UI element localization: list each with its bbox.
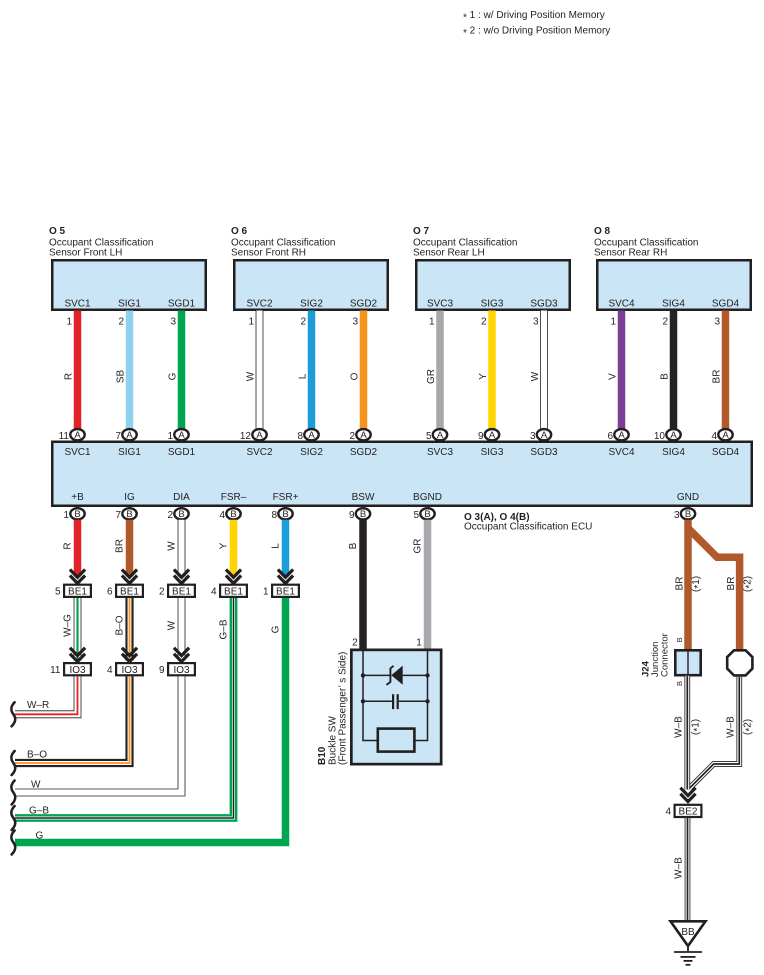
- connector BE1 pin 5: [55, 585, 91, 598]
- svg-text:2: 2: [159, 587, 165, 598]
- wire G–B run to left edge: [15, 598, 234, 818]
- svg-text:BGND: BGND: [413, 492, 442, 503]
- svg-text:IO3: IO3: [121, 665, 138, 676]
- connector A pin 12 (SVC2): [240, 429, 267, 442]
- connector B pin 2: [167, 508, 188, 521]
- wire B–O from BE1 to IO3: [115, 598, 130, 661]
- connector A pin 3 (SGD3): [530, 429, 551, 442]
- svg-text:IO3: IO3: [173, 665, 190, 676]
- wire W–R run to left edge: [15, 676, 78, 714]
- connector BE2 pin 4: [665, 805, 701, 818]
- junction dots on B10 rails: [361, 673, 430, 703]
- svg-text:12: 12: [240, 431, 252, 442]
- svg-text:SVC4: SVC4: [608, 447, 635, 458]
- svg-text:4: 4: [219, 510, 225, 521]
- wire Y from O 7 pin 2 to ECU SIG3 pin 9: [478, 311, 492, 429]
- junction connector J24: [675, 650, 700, 676]
- wire break squiggle for G–B: [11, 806, 15, 830]
- svg-text:W–B: W–B: [674, 857, 685, 879]
- sensor O 5 Sensor Front LH header label: [49, 226, 154, 259]
- svg-text:IO3: IO3: [69, 665, 86, 676]
- B10 internal right rail from pin 1: [415, 650, 428, 741]
- svg-text:A: A: [360, 430, 367, 441]
- node B label below J24: [675, 681, 684, 686]
- buckle switch B10 box: [351, 650, 441, 764]
- svg-text:5: 5: [413, 510, 419, 521]
- svg-text:4: 4: [665, 807, 671, 818]
- svg-text:1: 1: [248, 317, 254, 328]
- svg-text:2: 2: [300, 317, 306, 328]
- svg-text:2: 2: [167, 510, 173, 521]
- wire W from BE1 to IO3: [167, 598, 182, 661]
- arrow into connector BE1 column x=233.5: [226, 570, 241, 584]
- svg-text:A: A: [74, 430, 81, 441]
- svg-text:SIG3: SIG3: [481, 447, 504, 458]
- wire Y from ECU B pin 4 down to BE1: [219, 520, 234, 577]
- svg-text:SVC3: SVC3: [427, 447, 454, 458]
- svg-text:1: 1: [610, 317, 616, 328]
- J24 label: [641, 633, 671, 677]
- wire BR from ECU B pin 7 down to BE1: [115, 520, 130, 577]
- svg-text:B: B: [282, 509, 288, 520]
- svg-text:1: 1: [429, 317, 435, 328]
- svg-text:1: 1: [167, 431, 173, 442]
- arrow into connector BE2: [680, 788, 695, 802]
- svg-text:SB: SB: [116, 370, 127, 384]
- svg-text:B: B: [126, 509, 132, 520]
- svg-text:Sensor Rear LH: Sensor Rear LH: [413, 248, 485, 259]
- sensor O 5 box: [52, 260, 206, 310]
- arrow into connector BE1 column x=77.5: [70, 570, 85, 584]
- svg-text:L: L: [298, 373, 309, 379]
- svg-text:A: A: [308, 430, 315, 441]
- wire W run to left edge: [15, 676, 182, 792]
- svg-text:R: R: [64, 373, 75, 380]
- svg-text:BE1: BE1: [172, 587, 191, 598]
- svg-text:2: 2: [118, 317, 124, 328]
- connector A pin 4 (SGD4): [711, 429, 732, 442]
- svg-text:SIG3: SIG3: [481, 299, 504, 310]
- svg-text:+B: +B: [71, 492, 84, 503]
- note *1 w/ Driving Position Memory: [463, 10, 605, 23]
- svg-text:BSW: BSW: [352, 492, 375, 503]
- arrow into connector BE1 column x=285.5: [278, 570, 293, 584]
- wire O from O 6 pin 3 to ECU SGD2 pin 2: [350, 311, 364, 429]
- sensor O 7 Sensor Rear LH header label: [413, 226, 518, 259]
- wire L from O 6 pin 2 to ECU SIG2 pin 8: [298, 311, 312, 429]
- svg-text:BR: BR: [675, 577, 686, 591]
- svg-text:BR: BR: [726, 577, 737, 591]
- connector A pin 1 (SGD1): [167, 429, 188, 442]
- svg-text:SVC3: SVC3: [427, 299, 454, 310]
- connector B pin 3 (GND): [674, 508, 695, 521]
- svg-text:B–O: B–O: [115, 615, 126, 635]
- wire G–B below BE1: [219, 619, 230, 639]
- svg-text:O 6: O 6: [231, 226, 248, 237]
- svg-text:G–B: G–B: [219, 619, 230, 639]
- svg-text:BE1: BE1: [224, 587, 243, 598]
- svg-text:5: 5: [426, 431, 432, 442]
- wire G below BE1: [271, 625, 282, 633]
- connector A pin 10 (SIG4): [654, 429, 681, 442]
- svg-text:G–B: G–B: [29, 806, 49, 817]
- connector BE1 pin 1: [263, 585, 299, 598]
- svg-text:SGD2: SGD2: [350, 447, 378, 458]
- sensor O 8 Sensor Rear RH header label: [594, 226, 699, 259]
- svg-text:9: 9: [159, 665, 165, 676]
- connector B pin 8: [271, 508, 292, 521]
- svg-text:1: 1: [66, 317, 72, 328]
- svg-text:10: 10: [654, 431, 666, 442]
- svg-text:Y: Y: [219, 542, 230, 549]
- svg-text:Sensor Front LH: Sensor Front LH: [49, 248, 122, 259]
- node B label above J24: [675, 637, 684, 642]
- wire W-B from BE2 to body ground BB: [674, 818, 688, 921]
- connector IO3 pin 11: [50, 663, 91, 676]
- connector IO3 pin 4: [107, 663, 143, 676]
- arrow into connector IO3 column x=77.5: [70, 648, 85, 662]
- svg-text:A: A: [489, 430, 496, 441]
- ECU name label: [464, 512, 592, 533]
- svg-text:B: B: [675, 637, 684, 642]
- svg-text:SGD1: SGD1: [168, 299, 196, 310]
- B10 internal left rail from pin 2: [363, 650, 377, 741]
- svg-text:SGD1: SGD1: [168, 447, 196, 458]
- svg-text:SVC1: SVC1: [64, 447, 91, 458]
- svg-text:SGD4: SGD4: [712, 447, 740, 458]
- connector A pin 6 (SVC4): [607, 429, 628, 442]
- svg-text:B–O: B–O: [27, 750, 47, 761]
- svg-text:O 5: O 5: [49, 226, 66, 237]
- wire W from O 7 pin 3 to ECU SGD3 pin 3: [530, 311, 544, 429]
- connector IO3 pin 9: [159, 663, 195, 676]
- svg-text:W: W: [167, 541, 178, 551]
- svg-text:BE2: BE2: [679, 807, 698, 818]
- svg-text:O 7: O 7: [413, 226, 430, 237]
- svg-text:6: 6: [607, 431, 613, 442]
- svg-text:A: A: [126, 430, 133, 441]
- resistor inside B10: [378, 729, 415, 752]
- connector B pin 9 (BSW): [349, 508, 370, 521]
- svg-text:BR: BR: [712, 370, 723, 384]
- svg-text:W: W: [167, 620, 178, 630]
- svg-text:SGD3: SGD3: [530, 447, 558, 458]
- sensor O 6 Sensor Front RH header label: [231, 226, 336, 259]
- occupant classification ECU O3(A)/O4(B) box: [52, 442, 752, 506]
- svg-text:5: 5: [55, 587, 61, 598]
- svg-text:8: 8: [271, 510, 277, 521]
- svg-text:BE1: BE1: [120, 587, 139, 598]
- svg-text:DIA: DIA: [173, 492, 190, 503]
- svg-text:11: 11: [50, 665, 61, 676]
- svg-text:GR: GR: [426, 369, 437, 384]
- svg-text:9: 9: [478, 431, 484, 442]
- wire BR (*2) branch from GND to no-memory junction: [688, 528, 756, 650]
- wire G run to left edge: [15, 598, 286, 843]
- svg-text:A: A: [256, 430, 263, 441]
- connector A pin 8 (SIG2): [297, 429, 318, 442]
- svg-text:W: W: [246, 371, 257, 381]
- svg-text:3: 3: [533, 317, 539, 328]
- svg-text:O 8: O 8: [594, 226, 611, 237]
- svg-text:A: A: [437, 430, 444, 441]
- svg-text:A: A: [722, 430, 729, 441]
- wire break squiggle for W–R: [11, 702, 15, 726]
- svg-text:1: 1: [263, 587, 269, 598]
- wire break squiggle for G: [11, 831, 15, 855]
- wire W-B (*2) from octagon to BE2 merge: [690, 677, 756, 788]
- svg-text:2: 2: [352, 638, 358, 649]
- arrow into connector BE1 column x=129.5: [122, 570, 137, 584]
- svg-text:1: 1: [416, 638, 422, 649]
- svg-text:4: 4: [107, 665, 113, 676]
- svg-text:9: 9: [349, 510, 355, 521]
- wire break squiggle for W: [11, 781, 15, 805]
- wire W–G from BE1 to IO3: [63, 598, 78, 661]
- svg-text:SGD3: SGD3: [530, 299, 558, 310]
- connector BE1 pin 4: [211, 585, 247, 598]
- wire V from O 8 pin 1 to ECU SVC4 pin 6: [608, 311, 622, 429]
- svg-text:G: G: [271, 625, 282, 633]
- svg-text:7: 7: [115, 510, 121, 521]
- svg-text:1: 1: [63, 510, 69, 521]
- svg-text:SGD4: SGD4: [712, 299, 740, 310]
- wire B–O run to left edge: [15, 676, 130, 763]
- svg-text:3: 3: [674, 510, 680, 521]
- wire W from O 6 pin 1 to ECU SVC2 pin 12: [246, 311, 260, 429]
- wire L from ECU B pin 8 down to BE1: [271, 520, 286, 577]
- svg-text:A: A: [670, 430, 677, 441]
- svg-text:8: 8: [297, 431, 303, 442]
- svg-text:G: G: [168, 372, 179, 380]
- octagonal junction connector (*2): [727, 650, 752, 675]
- svg-text:Occupant Classification ECU: Occupant Classification ECU: [464, 522, 592, 533]
- svg-text:3: 3: [530, 431, 536, 442]
- wire G from O 5 pin 3 to ECU SGD1 pin 1: [168, 311, 182, 429]
- svg-text:L: L: [271, 543, 282, 549]
- svg-text:3: 3: [170, 317, 176, 328]
- svg-text:B10: B10: [317, 746, 328, 765]
- svg-text:7: 7: [115, 431, 121, 442]
- wire R from ECU B pin 1 down to BE1: [63, 520, 78, 577]
- svg-text:IG: IG: [124, 492, 135, 503]
- arrow into connector BE1 column x=181.5: [174, 570, 189, 584]
- note *2 w/o Driving Position Memory: [463, 26, 610, 39]
- svg-text:A: A: [618, 430, 625, 441]
- B10 label: [317, 652, 349, 765]
- svg-text:SGD2: SGD2: [350, 299, 378, 310]
- svg-text:2: 2: [481, 317, 487, 328]
- svg-text:B: B: [178, 509, 184, 520]
- svg-text:W–B: W–B: [725, 716, 736, 738]
- sensor O 7 box: [416, 260, 570, 310]
- svg-text:4: 4: [711, 431, 717, 442]
- svg-text:FSR+: FSR+: [273, 492, 299, 503]
- svg-text:B: B: [348, 542, 359, 549]
- wire B from O 8 pin 2 to ECU SIG4 pin 10: [660, 311, 674, 429]
- svg-text:B: B: [675, 681, 684, 686]
- ground BB triangle: [671, 921, 706, 946]
- svg-text:B: B: [74, 509, 80, 520]
- wire GR from O 7 pin 1 to ECU SVC3 pin 5: [426, 311, 440, 429]
- connector B pin 7: [115, 508, 136, 521]
- connector A pin 9 (SIG3): [478, 429, 499, 442]
- svg-text:W: W: [530, 371, 541, 381]
- connector B pin 4: [219, 508, 240, 521]
- svg-text:O: O: [350, 372, 361, 380]
- arrow into connector IO3 column x=181.5: [174, 648, 189, 662]
- svg-text:Y: Y: [478, 373, 489, 380]
- svg-text:B: B: [685, 509, 691, 520]
- svg-text:A: A: [541, 430, 548, 441]
- svg-text:SIG4: SIG4: [662, 447, 685, 458]
- wire W-B (*1) from J24 to BE2: [673, 676, 703, 790]
- sensor O 6 box: [234, 260, 388, 310]
- svg-text:GND: GND: [677, 492, 699, 503]
- svg-text:SVC2: SVC2: [246, 447, 273, 458]
- svg-text:(Front Passenger’ s Side): (Front Passenger’ s Side): [338, 652, 349, 765]
- svg-text:GR: GR: [413, 539, 424, 554]
- svg-text:SIG2: SIG2: [300, 447, 323, 458]
- ground symbol hatching: [674, 946, 702, 965]
- svg-text:11: 11: [59, 431, 70, 442]
- wire SB from O 5 pin 2 to ECU SIG1 pin 7: [116, 311, 130, 429]
- svg-text:6: 6: [107, 587, 113, 598]
- wire B from ECU BSW pin 9 to buckle switch pin 2: [348, 520, 363, 650]
- svg-text:SIG1: SIG1: [118, 299, 141, 310]
- arrow into connector IO3 column x=129.5: [122, 648, 137, 662]
- svg-text:G: G: [36, 831, 44, 842]
- svg-text:SVC2: SVC2: [246, 299, 273, 310]
- wire BR (*1) from ECU GND pin 3 to junction connector J24: [675, 520, 705, 651]
- svg-text:3: 3: [352, 317, 358, 328]
- svg-text:R: R: [63, 542, 74, 549]
- capacitor inside B10: [363, 694, 428, 709]
- svg-text:A: A: [178, 430, 185, 441]
- wire R from O 5 pin 1 to ECU SVC1 pin 11: [64, 311, 78, 429]
- connector B pin 1: [63, 508, 84, 521]
- wire W from ECU B pin 2 down to BE1: [167, 520, 182, 577]
- connector B pin 5 (BGND): [413, 508, 434, 521]
- svg-text:Sensor Front RH: Sensor Front RH: [231, 248, 306, 259]
- svg-text:3: 3: [714, 317, 720, 328]
- zener diode inside B10: [363, 666, 428, 685]
- svg-text:SVC1: SVC1: [64, 299, 91, 310]
- wire break squiggle for B–O: [11, 751, 15, 775]
- wire GR from ECU BGND pin 5 to buckle switch pin 1: [413, 520, 428, 650]
- connector A pin 11 (SVC1): [59, 429, 85, 442]
- svg-text:FSR–: FSR–: [221, 492, 247, 503]
- svg-text:SIG4: SIG4: [662, 299, 685, 310]
- svg-text:BB: BB: [681, 927, 695, 938]
- svg-text:BR: BR: [115, 539, 126, 553]
- svg-text:W: W: [31, 780, 41, 791]
- svg-text:B: B: [660, 373, 671, 380]
- svg-text:V: V: [608, 373, 619, 380]
- svg-text:W–G: W–G: [63, 614, 74, 637]
- connector A pin 2 (SGD2): [349, 429, 370, 442]
- svg-text:Connector: Connector: [660, 633, 671, 677]
- svg-text:4: 4: [211, 587, 217, 598]
- svg-text:2: 2: [349, 431, 355, 442]
- svg-text:SIG1: SIG1: [118, 447, 141, 458]
- svg-text:B: B: [424, 509, 430, 520]
- svg-text:BE1: BE1: [68, 587, 87, 598]
- svg-text:B: B: [230, 509, 236, 520]
- connector BE1 pin 2: [159, 585, 195, 598]
- connector BE1 pin 6: [107, 585, 143, 598]
- svg-text:BE1: BE1: [276, 587, 295, 598]
- connector A pin 7 (SIG1): [115, 429, 136, 442]
- sensor O 8 box: [597, 260, 751, 310]
- svg-text:Sensor Rear RH: Sensor Rear RH: [594, 248, 667, 259]
- wire BR from O 8 pin 3 to ECU SGD4 pin 4: [712, 311, 726, 429]
- connector A pin 5 (SVC3): [426, 429, 447, 442]
- svg-text:2: 2: [662, 317, 668, 328]
- svg-text:SIG2: SIG2: [300, 299, 323, 310]
- svg-text:B: B: [360, 509, 366, 520]
- svg-text:SVC4: SVC4: [608, 299, 635, 310]
- svg-text:W–B: W–B: [673, 716, 684, 738]
- svg-text:W–R: W–R: [27, 700, 49, 711]
